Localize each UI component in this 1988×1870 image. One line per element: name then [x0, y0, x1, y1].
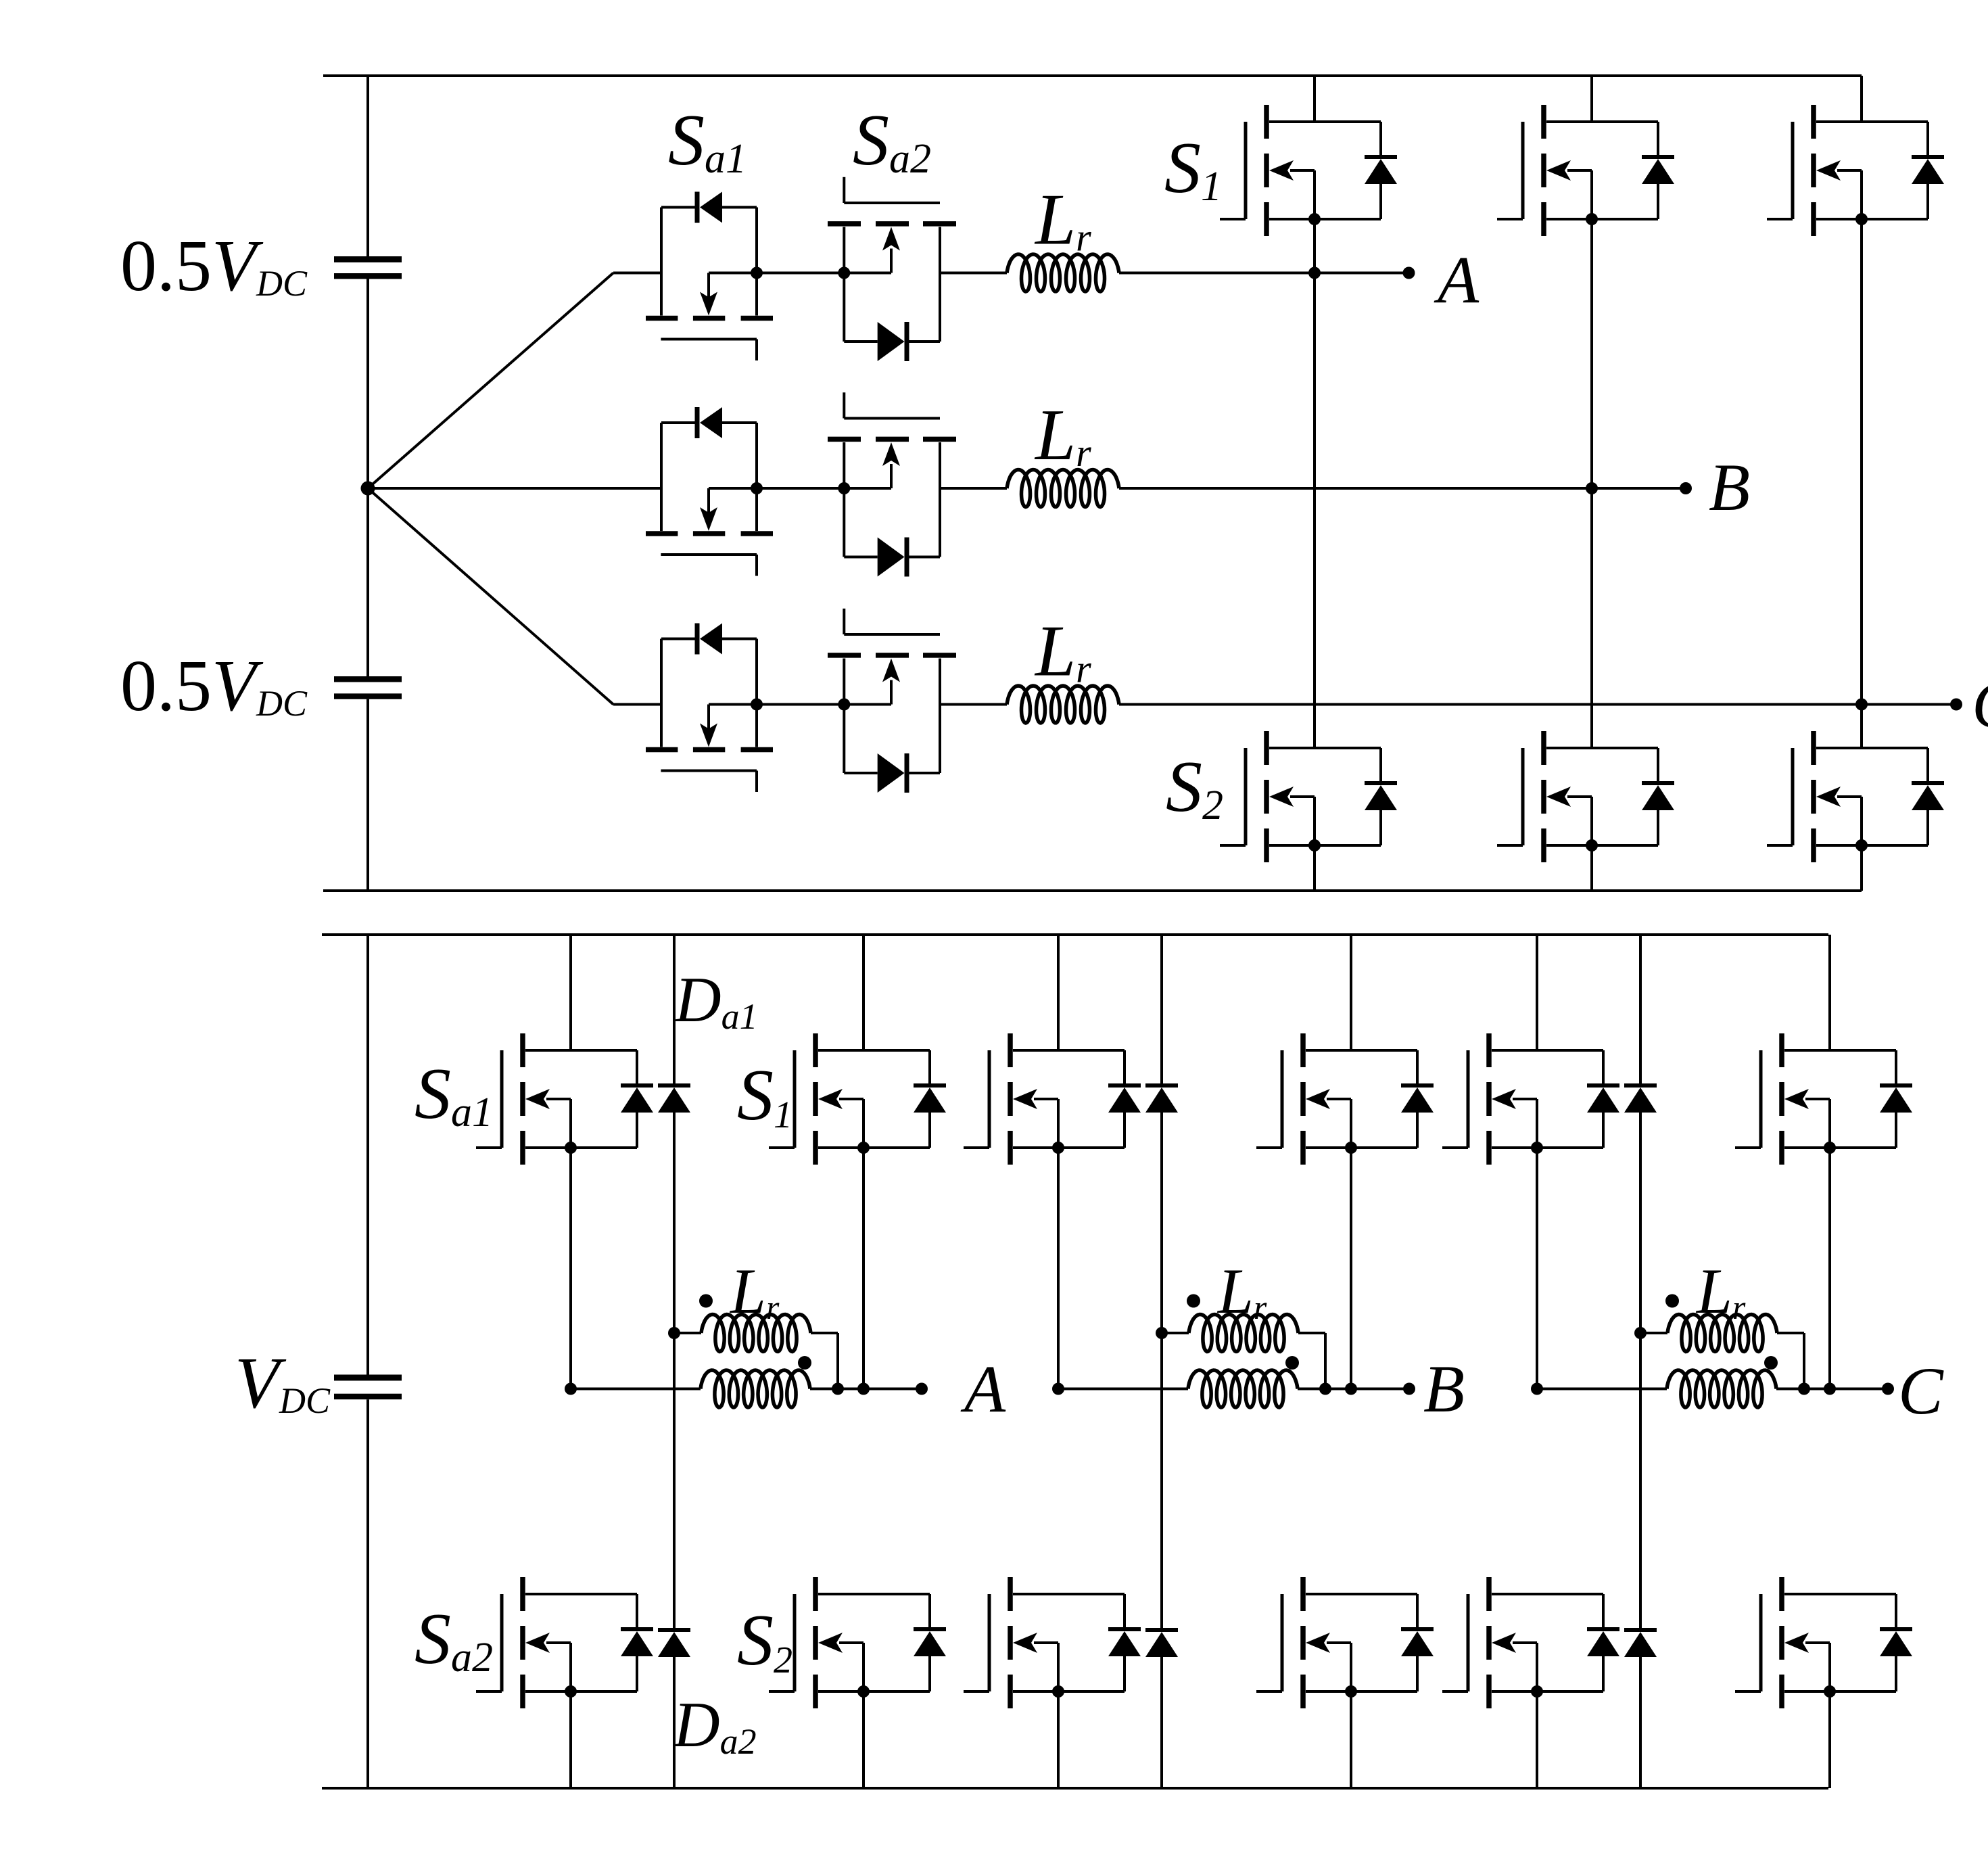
svg-text:C: C — [1972, 667, 1988, 742]
svg-text:B: B — [1709, 450, 1750, 525]
svg-text:B: B — [1423, 1351, 1465, 1426]
svg-text:A: A — [960, 1351, 1006, 1426]
svg-text:C: C — [1898, 1353, 1944, 1428]
svg-text:A: A — [1434, 242, 1480, 317]
